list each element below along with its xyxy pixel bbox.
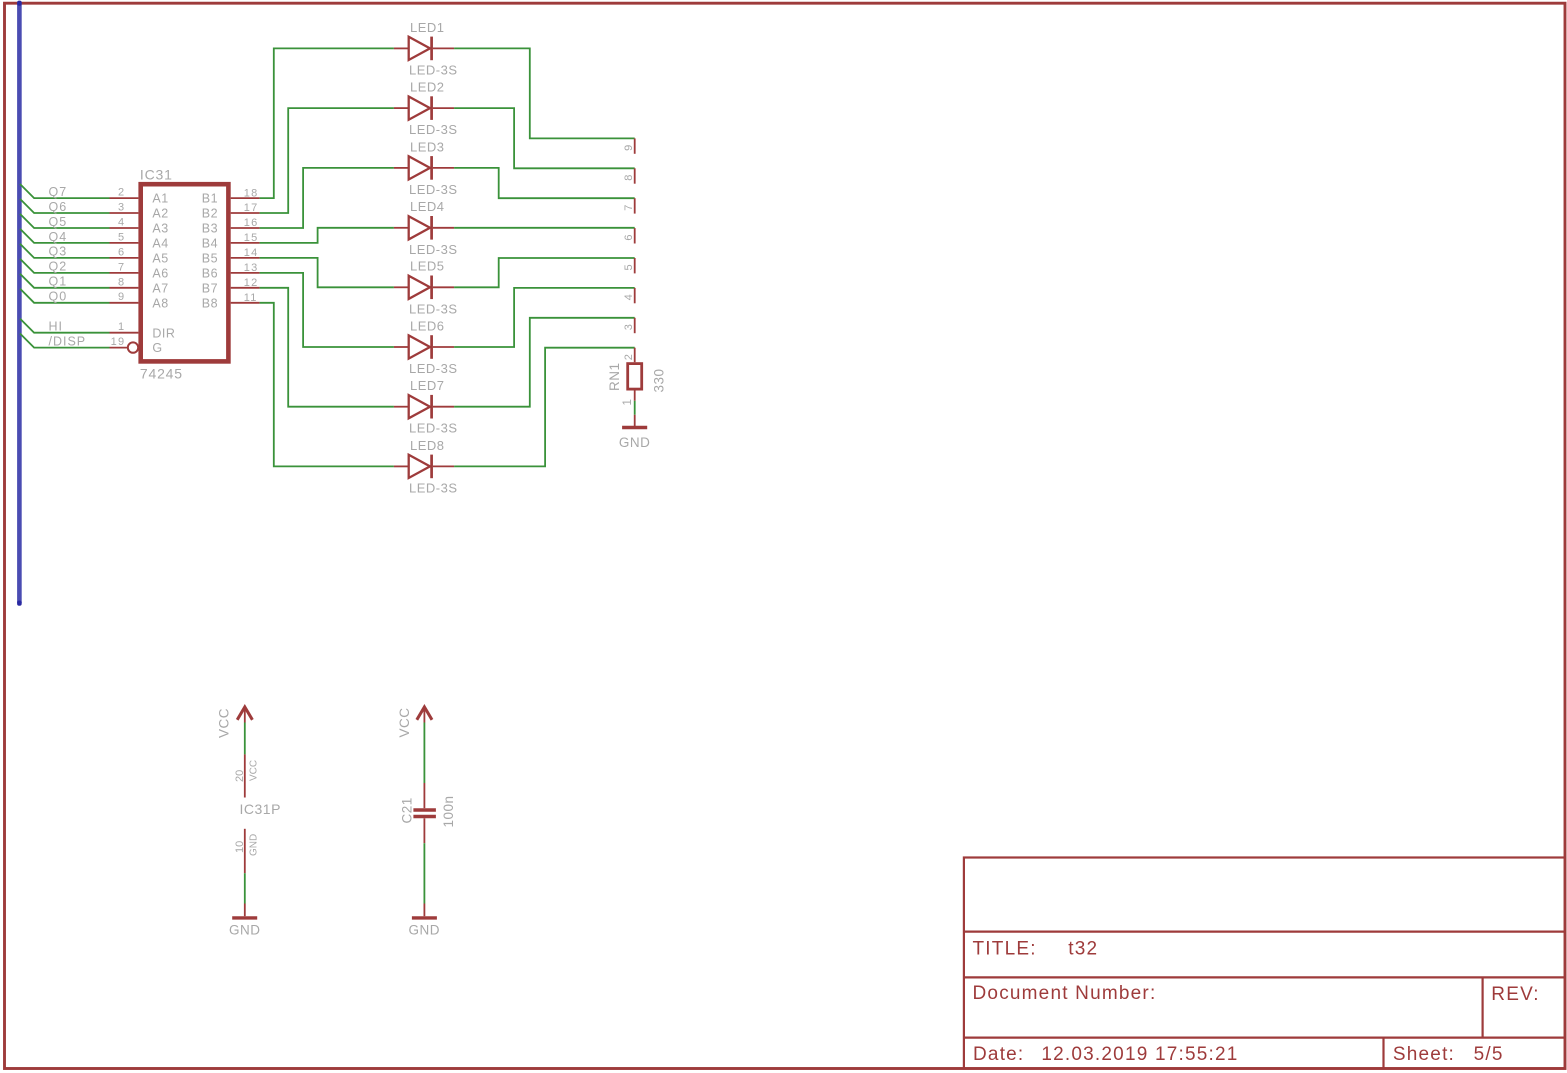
LED LED5 — [394, 276, 454, 300]
VCC supply symbol at C21 — [417, 707, 432, 720]
svg-text:IC31: IC31 — [140, 167, 173, 183]
wire net Q7 — [20, 184, 110, 198]
IC31 pin 7 (A6) — [110, 272, 139, 274]
bus end cap top — [17, 1, 22, 6]
svg-text:LED-3S: LED-3S — [409, 62, 458, 77]
RN1 pin 9 stub — [634, 138, 636, 153]
svg-text:B2: B2 — [202, 207, 218, 221]
RN1 pin 4 stub — [634, 288, 636, 303]
svg-text:19: 19 — [111, 336, 126, 348]
svg-text:A5: A5 — [152, 252, 168, 266]
svg-text:LED-3S: LED-3S — [409, 122, 458, 137]
svg-text:2: 2 — [118, 187, 125, 199]
svg-text:RN1: RN1 — [607, 362, 622, 391]
wire net LED1 to RN1 pin 9 — [454, 48, 635, 138]
svg-text:74245: 74245 — [140, 366, 183, 382]
svg-text:C21: C21 — [400, 797, 415, 823]
IC31 pin 8 (A7) — [110, 287, 139, 289]
svg-text:Q2: Q2 — [49, 260, 68, 274]
IC31 pin 17 (B2) — [231, 212, 260, 214]
wire net B6 to LED6 — [260, 273, 394, 347]
wire net Q3 — [20, 244, 110, 258]
IC U IC31 74245 body — [141, 184, 229, 361]
wire net RN1 to GND — [634, 401, 636, 415]
wire net B4 to LED4 — [260, 228, 394, 243]
wire net B2 to LED2 — [260, 108, 394, 213]
svg-text:LED-3S: LED-3S — [409, 480, 458, 495]
IC31 pin 16 (B3) — [231, 227, 260, 229]
svg-text:GND: GND — [249, 834, 260, 856]
svg-text:Date:: Date: — [973, 1044, 1024, 1065]
IC31 pin 1 (DIR) — [110, 332, 139, 334]
IC31P pin 10 (GND) — [244, 829, 246, 873]
svg-text:GND: GND — [409, 923, 441, 938]
svg-text:LED5: LED5 — [410, 259, 445, 274]
LED LED4 — [394, 216, 454, 240]
LED LED2 — [394, 96, 454, 120]
IC31 pin 3 (A2) — [110, 212, 139, 214]
title block frame — [964, 858, 1565, 1069]
svg-text:LED-3S: LED-3S — [409, 182, 458, 197]
RN1 pin 6 stub — [634, 228, 636, 243]
svg-text:/DISP: /DISP — [49, 334, 87, 348]
capacitor C21 plates — [413, 808, 436, 812]
svg-text:B1: B1 — [202, 192, 218, 206]
svg-text:IC31P: IC31P — [240, 801, 281, 817]
svg-text:B8: B8 — [202, 296, 218, 310]
svg-text:8: 8 — [623, 175, 635, 181]
svg-text:6: 6 — [118, 246, 125, 258]
svg-text:11: 11 — [244, 292, 258, 304]
LED LED3 — [394, 156, 454, 180]
svg-text:VCC: VCC — [249, 760, 260, 781]
wire net /DISP — [20, 334, 110, 348]
svg-text:6: 6 — [623, 234, 635, 240]
svg-text:TITLE:: TITLE: — [973, 939, 1037, 960]
svg-text:9: 9 — [118, 291, 125, 303]
svg-text:4: 4 — [118, 217, 125, 229]
C21 top pin — [423, 783, 425, 808]
wire net LED7 to RN1 pin 3 — [454, 318, 635, 407]
svg-text:B5: B5 — [202, 252, 218, 266]
svg-text:LED4: LED4 — [410, 199, 445, 214]
svg-text:LED2: LED2 — [410, 80, 445, 95]
bus Q[0..7] — [17, 3, 22, 603]
svg-text:13: 13 — [244, 262, 259, 274]
wire net B1 to LED1 — [260, 48, 394, 198]
bus end cap bottom — [17, 601, 22, 606]
svg-text:LED6: LED6 — [410, 318, 445, 333]
svg-text:LED7: LED7 — [410, 378, 445, 393]
svg-text:Document Number:: Document Number: — [973, 983, 1157, 1004]
VCC supply symbol at IC31P — [237, 707, 252, 720]
svg-text:5: 5 — [118, 231, 125, 243]
IC31 pin 18 (B1) — [231, 197, 260, 199]
wire net Q1 — [20, 274, 110, 288]
wire net Q2 — [20, 259, 110, 273]
svg-text:20: 20 — [234, 770, 246, 782]
IC31 pin 11 (B8) — [231, 302, 260, 304]
svg-text:12: 12 — [244, 277, 259, 289]
LED LED7 — [394, 395, 454, 419]
C21 bottom pin — [423, 818, 425, 843]
svg-text:VCC: VCC — [217, 708, 232, 738]
svg-text:16: 16 — [244, 217, 259, 229]
RN1 pin 8 stub — [634, 168, 636, 183]
svg-text:B7: B7 — [202, 281, 218, 295]
ground symbol at IC31P — [244, 904, 246, 917]
svg-text:LED8: LED8 — [410, 438, 445, 453]
svg-text:3: 3 — [118, 202, 125, 214]
svg-text:2: 2 — [623, 354, 635, 360]
wire net Q6 — [20, 199, 110, 213]
svg-text:1: 1 — [118, 321, 125, 333]
svg-text:A4: A4 — [152, 237, 168, 251]
resistor network RN1 body — [628, 364, 642, 390]
svg-text:Q7: Q7 — [49, 185, 68, 199]
svg-text:Q5: Q5 — [49, 215, 68, 229]
wire net LED2 to RN1 pin 8 — [454, 108, 635, 168]
wire net LED8 to RN1 pin 2 — [454, 348, 635, 467]
wire net B5 to LED5 — [260, 258, 394, 287]
svg-text:7: 7 — [623, 205, 635, 211]
ground symbol at RN1 — [634, 415, 636, 426]
svg-text:LED1: LED1 — [410, 20, 445, 35]
svg-text:LED-3S: LED-3S — [409, 421, 458, 436]
svg-text:8: 8 — [118, 276, 125, 288]
svg-text:Sheet:: Sheet: — [1393, 1044, 1455, 1065]
svg-text:3: 3 — [623, 324, 635, 330]
ground symbol at C21 — [423, 904, 425, 917]
svg-text:HI: HI — [49, 320, 64, 334]
svg-text:14: 14 — [244, 247, 259, 259]
wire net B7 to LED7 — [260, 288, 394, 407]
IC31P pin 20 (VCC) — [244, 754, 246, 797]
IC31 pin 6 (A5) — [110, 257, 139, 259]
RN1 pin 7 stub — [634, 198, 636, 213]
svg-text:18: 18 — [244, 187, 259, 199]
RN1 pin 2 stub — [634, 348, 636, 363]
IC31 pin 12 (B7) — [231, 287, 260, 289]
svg-text:330: 330 — [652, 368, 667, 392]
IC31 pin 14 (B5) — [231, 257, 260, 259]
wire net LED5 to RN1 pin 5 — [454, 258, 635, 287]
IC31 pin 9 (A8) — [110, 302, 139, 304]
svg-text:LED-3S: LED-3S — [409, 301, 458, 316]
svg-text:A2: A2 — [152, 207, 168, 221]
svg-text:GND: GND — [619, 435, 651, 450]
svg-text:REV:: REV: — [1491, 984, 1539, 1005]
wire net GND at IC31P — [244, 873, 246, 903]
IC31 pin 4 (A3) — [110, 227, 139, 229]
wire net VCC to IC31P pin 20 — [244, 723, 246, 755]
IC31 pin 19 (G) — [110, 347, 128, 349]
wire net B8 to LED8 — [260, 303, 394, 467]
RN1 pin 3 stub — [634, 318, 636, 333]
svg-text:1: 1 — [622, 399, 634, 405]
svg-text:12.03.2019 17:55:21: 12.03.2019 17:55:21 — [1041, 1044, 1238, 1065]
RN1 pin 1 stub — [634, 391, 636, 401]
wire net LED6 to RN1 pin 4 — [454, 288, 635, 347]
svg-text:17: 17 — [244, 202, 259, 214]
svg-text:Q3: Q3 — [49, 245, 68, 259]
svg-text:B3: B3 — [202, 222, 218, 236]
LED LED1 — [394, 37, 454, 61]
svg-text:4: 4 — [623, 294, 635, 300]
wire net LED3 to RN1 pin 7 — [454, 168, 635, 198]
svg-text:15: 15 — [244, 232, 259, 244]
svg-text:LED-3S: LED-3S — [409, 361, 458, 376]
svg-text:LED-3S: LED-3S — [409, 242, 458, 257]
svg-text:VCC: VCC — [397, 707, 412, 737]
svg-text:5/5: 5/5 — [1474, 1044, 1504, 1065]
svg-text:B6: B6 — [202, 267, 218, 281]
wire net Q0 — [20, 289, 110, 303]
wire net VCC to C21 — [423, 723, 425, 784]
wire net B3 to LED3 — [260, 168, 394, 228]
svg-text:B4: B4 — [202, 237, 218, 251]
svg-text:GND: GND — [229, 923, 261, 938]
svg-text:9: 9 — [623, 145, 635, 151]
IC31 pin 13 (B6) — [231, 272, 260, 274]
wire net Q5 — [20, 214, 110, 228]
svg-text:t32: t32 — [1068, 939, 1098, 960]
wire net GND at C21 — [423, 843, 425, 903]
RN1 pin 5 stub — [634, 258, 636, 273]
LED LED8 — [394, 455, 454, 479]
svg-text:7: 7 — [118, 261, 125, 273]
svg-text:Q0: Q0 — [49, 290, 68, 304]
inverter bubble on pin 19 — [128, 342, 138, 352]
wire net HI — [20, 319, 110, 333]
svg-text:5: 5 — [623, 264, 635, 270]
svg-text:G: G — [152, 341, 162, 355]
svg-text:Q1: Q1 — [49, 275, 68, 289]
IC31 pin 15 (B4) — [231, 242, 260, 244]
svg-text:Q4: Q4 — [49, 230, 68, 244]
svg-text:100n: 100n — [441, 795, 456, 827]
svg-text:A8: A8 — [152, 296, 168, 310]
svg-text:LED3: LED3 — [410, 139, 445, 154]
wire net LED4 to RN1 pin 6 — [454, 227, 635, 229]
svg-text:A3: A3 — [152, 222, 168, 236]
svg-text:DIR: DIR — [152, 326, 175, 340]
IC31 pin 5 (A4) — [110, 242, 139, 244]
svg-text:A6: A6 — [152, 267, 168, 281]
svg-text:A7: A7 — [152, 281, 168, 295]
svg-text:10: 10 — [234, 841, 246, 853]
wire net Q4 — [20, 229, 110, 243]
IC31 pin 2 (A1) — [110, 197, 139, 199]
LED LED6 — [394, 335, 454, 359]
svg-text:A1: A1 — [152, 192, 168, 206]
svg-text:Q6: Q6 — [49, 200, 68, 214]
